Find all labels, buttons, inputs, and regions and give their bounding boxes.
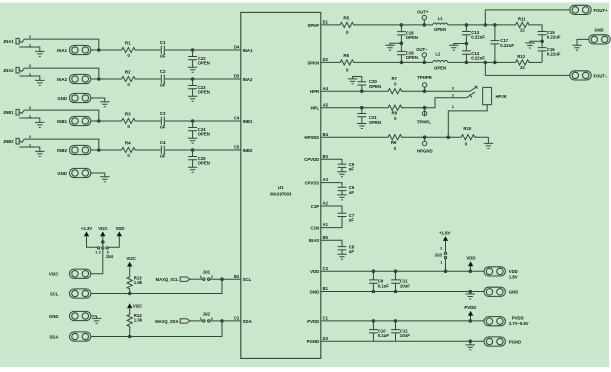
svg-text:HPGND: HPGND [417,149,433,154]
pin A1 C1N of U1 [311,222,329,230]
svg-text:INB2: INB2 [243,148,253,153]
svg-text:JNB1: JNB1 [3,110,14,115]
svg-text:JU4: JU4 [106,254,114,259]
svg-text:D4: D4 [234,45,240,50]
svg-text:R1: R1 [125,41,131,46]
svg-text:D1: D1 [323,20,329,25]
resistor R9 0 [387,135,404,151]
pin D1 SPKP of U1 [307,20,328,28]
svg-text:C3: C3 [160,111,166,116]
testpoint connector INB1 [57,116,91,125]
svg-text:HPSNS: HPSNS [304,135,319,140]
wire SDA row [91,321,222,337]
junction HPGND [423,135,427,139]
capacitor C17 0.22uF [491,25,515,63]
testpoint OUT- [416,47,428,62]
junction at C23 [191,77,195,81]
wire JNA2 pin1 to ground [19,76,40,80]
svg-text:OUT−: OUT− [416,47,428,52]
junction JU3 bottom [444,269,448,273]
pin D3 PGND of U1 [307,336,329,344]
wire SPKP pin to R5 [321,24,339,26]
wire GND oval to ground [91,173,105,177]
svg-text:A2: A2 [323,201,329,206]
wire BIAS to C8 [321,240,342,246]
svg-text:INA1: INA1 [243,48,253,53]
wire INB2 oval to junction [91,149,120,151]
svg-text:JNA2: JNA2 [3,68,14,73]
pin C3 VDD of U1 [310,266,328,274]
svg-text:JNB2: JNB2 [3,139,14,144]
svg-text:10uF: 10uF [400,333,410,338]
wire R5 to L1 [355,24,433,26]
svg-text:B1: B1 [323,286,329,291]
ground below JNB2 [35,151,44,156]
wire GND row [321,291,484,293]
resistor R7 0 [387,76,404,94]
wire tag to JU2 [190,320,203,322]
junction OUT+ [423,23,427,27]
wire net FOUT+ [485,10,570,25]
ground bottom left [92,318,101,323]
wire HPSNS pin to R9 [321,136,489,138]
ground below C23 [188,96,197,101]
wire JNB2 pin2 to node INB2 [24,139,99,150]
junction C9 bottom [372,290,376,294]
wire SPKN pin to R6 [321,61,339,63]
wire R6 to L2 [355,61,433,63]
wire GND oval to ground [91,98,105,102]
svg-text:R8: R8 [392,111,398,116]
svg-text:R4: R4 [125,141,131,146]
svg-text:1 2: 1 2 [95,250,101,255]
pin A5 HPL of U1 [311,102,329,110]
svg-text:JU2: JU2 [203,311,211,316]
testpoint connector INB2 [57,145,91,154]
wire R3 to C3 [136,120,161,122]
svg-text:JU3: JU3 [434,252,442,257]
connector FOUT- [570,71,608,80]
svg-text:VI2C: VI2C [133,304,143,309]
junction at C22 [191,48,195,52]
svg-text:uF: uF [349,167,355,172]
connector FOUT+ [570,5,608,14]
pin B2 SCL of U1 [234,274,252,282]
junction R13 bottom [128,292,132,296]
jumper JU4 [95,247,114,259]
svg-text:INB1: INB1 [243,119,253,124]
wire HPR pin to jack [321,90,470,92]
junction TPHPL [423,106,427,110]
capacitor C16 0.22uF [538,41,561,62]
junction C15/C16 mid [540,40,544,44]
capacitor C15 0.22uF [538,30,561,42]
svg-text:OPEN: OPEN [434,66,446,71]
svg-text:FOUT−: FOUT− [594,73,608,78]
svg-text:OPEN: OPEN [369,84,381,89]
svg-text:B4: B4 [323,132,329,137]
svg-text:HPJK: HPJK [496,94,507,99]
svg-text:GND: GND [57,171,67,176]
junction JU4 center [101,240,105,244]
wire HPL pin to R8 [321,107,425,109]
testpoint OUT+ [417,10,429,25]
wire to ground C18/C19 [390,43,401,45]
wire R11 to C15 [530,25,542,32]
svg-text:C4: C4 [234,116,240,121]
testpoint connector GND left 173 [57,168,90,177]
svg-text:INB1: INB1 [57,119,67,124]
svg-text:L2: L2 [435,51,441,56]
junction FOUT+ takeoff [484,23,488,27]
op-amp U1 MAX97003 IC body [241,12,321,358]
pin D4 INA1 of U1 [234,45,253,53]
svg-text:C1: C1 [160,40,166,45]
resistor R4 0 [120,141,137,159]
svg-text:0.1uF: 0.1uF [378,333,390,338]
svg-text:JNA1: JNA1 [3,39,14,44]
junction at C25 [191,148,195,152]
resistor R5 0 [339,15,356,35]
junction PVDD arrow [469,319,473,323]
junction C17 bottom [493,61,497,65]
svg-text:R7: R7 [392,76,398,81]
testpoint TPHPL [417,108,432,125]
wire L2 to R12 [448,61,514,63]
inductor L2 OPEN [433,51,448,70]
connector GND top right [589,28,610,44]
wire to ground C15/C16 [530,41,542,43]
connector JNB1 audio jack [3,109,24,115]
svg-text:HPR: HPR [310,89,320,94]
ground below C22 [188,67,197,72]
power VI2C above R14 [127,303,142,313]
svg-text:+3.3V: +3.3V [81,226,93,231]
ground below C24 [188,138,197,143]
svg-text:0.22uF: 0.22uF [500,43,514,48]
junction R14 bottom [128,335,132,339]
testpoint HPGND [417,137,433,153]
power +1.8V [439,230,451,241]
ground at C13/C14 [449,45,458,50]
svg-text:VDD: VDD [310,269,319,274]
svg-text:22: 22 [520,28,525,33]
junction C17 top [493,23,497,27]
svg-text:B2: B2 [234,274,240,279]
svg-text:22: 22 [520,65,525,70]
svg-text:INA2: INA2 [243,77,253,82]
ground below JNA1 [35,51,44,56]
resistor R10 0 [460,126,477,147]
wire JNA2 pin2 to node INA2 [24,68,99,79]
power +3.3V [81,226,98,247]
junction C20 [360,89,364,93]
pin D2 SPKN of U1 [307,57,328,65]
connector VDD 1.8V [484,267,518,280]
pin C4 INB1 of U1 [234,116,253,124]
svg-text:C1: C1 [323,316,329,321]
svg-text:uF: uF [160,54,166,59]
wire C1 to U1 [165,49,241,51]
svg-text:INB2: INB2 [57,148,67,153]
capacitor C5 uF [338,162,355,172]
connector GND bottom right [484,287,518,296]
capacitor C18 OPEN [397,25,418,43]
pin B3 CPVDD of U1 [304,154,328,162]
junction node INA2 [97,77,101,81]
svg-text:L1: L1 [438,16,444,21]
pin B1 GND of U1 [310,286,329,294]
testpoint connector GND bottom left [49,311,91,320]
capacitor C19 OPEN [397,43,418,62]
svg-text:VDD: VDD [509,269,518,274]
svg-text:1.5k: 1.5k [134,280,143,285]
svg-text:OPEN: OPEN [198,90,210,95]
junction jack sleeve [447,135,451,139]
capacitor C8 uF [338,244,355,254]
testpoint connector SCL [50,289,91,298]
svg-text:A3: A3 [323,177,329,182]
svg-text:TPHPL: TPHPL [417,119,432,124]
capacitor C3 uF [160,111,166,130]
wire C1P to C7 [321,206,342,213]
svg-text:MAXQ_SCL: MAXQ_SCL [156,277,179,282]
svg-text:R10: R10 [463,126,472,131]
resistor R3 0 [120,112,137,130]
svg-text:D2: D2 [323,57,329,62]
svg-text:0.22uF: 0.22uF [547,52,561,57]
wire JNA1 pin2 to node INA1 [24,39,99,50]
svg-text:R2: R2 [125,70,131,75]
junction C13/C14 mid [465,42,469,46]
capacitor C2 uF [160,69,166,88]
wire PVDD row [321,320,484,322]
wire INA2 oval to junction [91,78,120,80]
svg-text:R11: R11 [518,16,526,21]
svg-text:JU1: JU1 [203,270,211,275]
svg-text:1.5k: 1.5k [134,318,143,323]
svg-text:PGND: PGND [307,339,319,344]
svg-text:R9: R9 [391,140,397,145]
svg-text:VI2C: VI2C [126,256,136,261]
svg-text:OUT+: OUT+ [417,10,429,15]
svg-text:TPHPR: TPHPR [417,75,433,80]
svg-text:OPEN: OPEN [406,35,418,40]
svg-text:uF: uF [349,218,355,223]
wire PGND row [321,340,484,342]
svg-text:PGND: PGND [509,339,521,344]
ground below C25 [188,167,197,172]
svg-text:GND: GND [310,289,320,294]
pin C1 PVDD of U1 [307,316,328,324]
wire C7 to C1N [321,217,342,228]
svg-text:OPEN: OPEN [369,120,381,125]
wire R2 to C2 [136,78,161,80]
wire C2 to U1 [165,78,241,80]
capacitor C20 OPEN [353,77,382,92]
svg-text:VDD: VDD [466,256,475,261]
svg-text:0.1uF: 0.1uF [378,283,390,288]
wire INA1 oval to junction [91,49,120,51]
svg-text:uF: uF [160,154,166,159]
ground below JNB1 [35,122,44,127]
jack contact pin 3 [470,86,478,92]
resistor R14 1.5k [127,313,143,337]
wire JNB1 pin2 to node INB1 [24,110,99,121]
power PVDD arrow [464,305,476,321]
wire R12 to C16 [530,61,542,63]
connector HPJK headphone jack body [483,87,507,104]
svg-text:CPVDD: CPVDD [304,157,319,162]
svg-text:1.8V: 1.8V [509,274,518,279]
svg-text:OPEN: OPEN [198,132,210,137]
svg-text:D5: D5 [234,74,240,79]
svg-text:PVDD: PVDD [307,319,319,324]
connector JNA1 audio jack [3,38,24,44]
wire JNB2 pin1 to ground [19,147,40,151]
svg-text:C4: C4 [160,140,166,145]
svg-text:uF: uF [160,83,166,88]
jumper JU1 [200,270,214,281]
ground symbol [100,102,109,107]
jumper JU3 [434,241,446,271]
capacitor C7 uF [338,213,355,223]
capacitor C9 0.1uF [369,271,389,291]
resistor R11 22 [514,16,531,32]
junction C11 bottom [394,290,398,294]
wire to ground C13/C14 [454,44,467,46]
resistor R1 0 [120,41,137,59]
capacitor C14 0.22uF [462,44,485,63]
ground at C18/C19 [385,45,394,50]
junction node INB2 [97,148,101,152]
wire net FOUT- [485,62,570,75]
svg-text:A4: A4 [323,86,329,91]
power VI2C above R13 [126,256,136,276]
junction SDA net [220,319,224,323]
svg-text:R3: R3 [125,112,131,117]
ground at C15/C16 [525,43,534,48]
svg-text:B3: B3 [323,154,329,159]
svg-text:HPL: HPL [311,106,320,111]
svg-text:SPKP: SPKP [307,23,319,28]
svg-text:C2: C2 [234,316,240,321]
svg-text:R5: R5 [343,15,349,20]
svg-text:R6: R6 [343,53,349,58]
net tag MAXQ_SCL [156,277,190,282]
junction PGND ground [469,339,473,343]
svg-text:SCL: SCL [50,291,59,296]
svg-text:GND: GND [594,28,603,33]
ground symbol [100,177,109,182]
ground at C20 [348,79,357,84]
svg-text:D3: D3 [323,336,329,341]
ground at C8 [337,254,346,259]
junction node INA1 [97,48,101,52]
wire L1 to R11 [448,24,514,26]
pin C5 INB2 of U1 [234,145,253,153]
wire INB1 oval to junction [91,120,120,122]
svg-text:OPEN: OPEN [434,27,446,32]
svg-text:GND: GND [49,314,59,319]
capacitor C21 OPEN [357,108,381,125]
svg-text:+1.8V: +1.8V [439,230,451,235]
junction C19 bottom [400,61,404,65]
junction OUT- [423,61,427,65]
resistor R13 1.5k [127,276,143,294]
wire TPHPL to jack pin 2 [425,98,467,108]
svg-text:SDA: SDA [49,334,58,339]
connector JNA2 audio jack [3,67,24,73]
pin A4 HPR of U1 [310,86,328,94]
junction TPHPR [423,89,427,93]
junction C13 top [465,23,469,27]
junction at C24 [191,119,195,123]
wire C4 to U1 [165,149,241,151]
svg-text:C3: C3 [323,266,329,271]
pin B5 BIAS of U1 [309,235,329,243]
pin D5 INA2 of U1 [234,74,253,82]
power VDD arrow JU4 [108,226,124,247]
testpoint connector VI2C [49,269,91,278]
junction C18/C19 mid [400,41,404,45]
ground at PGND row [469,341,471,345]
power VDD arrow [466,256,475,272]
ground at C6 [337,195,346,200]
capacitor C23 OPEN [188,79,210,96]
net tag MAXQ_SDA [155,319,190,324]
testpoint connector INA1 [57,45,91,54]
svg-text:INA1: INA1 [57,48,67,53]
svg-text:U1: U1 [278,185,284,190]
capacitor C10 0.1uF [369,321,389,341]
testpoint TPHPR [417,75,433,91]
svg-text:C1P: C1P [311,204,320,209]
capacitor C22 OPEN [188,50,210,67]
svg-text:VI2C: VI2C [98,226,108,231]
pin C2 SDA of U1 [234,316,252,324]
capacitor C6 uF [338,185,355,195]
wire JU1 to SCL pin [210,278,241,280]
wire C3 to U1 [165,120,241,122]
svg-text:A1: A1 [323,222,329,227]
wire JNB1 pin1 to ground [19,118,40,122]
wire GND oval to ground [91,316,97,318]
svg-text:B5: B5 [323,235,329,240]
svg-text:OPEN: OPEN [198,61,210,66]
ground at GND row [469,292,471,295]
capacitor C12 10uF [391,321,410,341]
wire VDD row [321,270,484,272]
junction FOUT- takeoff [484,61,488,65]
resistor R2 0 [120,70,137,88]
capacitor C1 uF [160,40,166,59]
pin B4 HPSNS of U1 [304,132,328,140]
svg-text:0.22uF: 0.22uF [471,35,485,40]
wire SCL row [91,279,222,293]
testpoint connector INA2 [57,74,91,83]
svg-text:INA2: INA2 [57,77,67,82]
pin A2 C1P of U1 [311,201,329,209]
wire jack pin 1 to HPSNS [448,105,487,138]
svg-text:OPEN: OPEN [406,55,418,60]
ground top right [572,45,581,50]
pin A3 CPVSS of U1 [305,177,329,185]
svg-text:uF: uF [160,125,166,130]
svg-text:C2: C2 [160,69,166,74]
svg-text:SPKN: SPKN [307,60,319,65]
junction GND ground [469,290,473,294]
